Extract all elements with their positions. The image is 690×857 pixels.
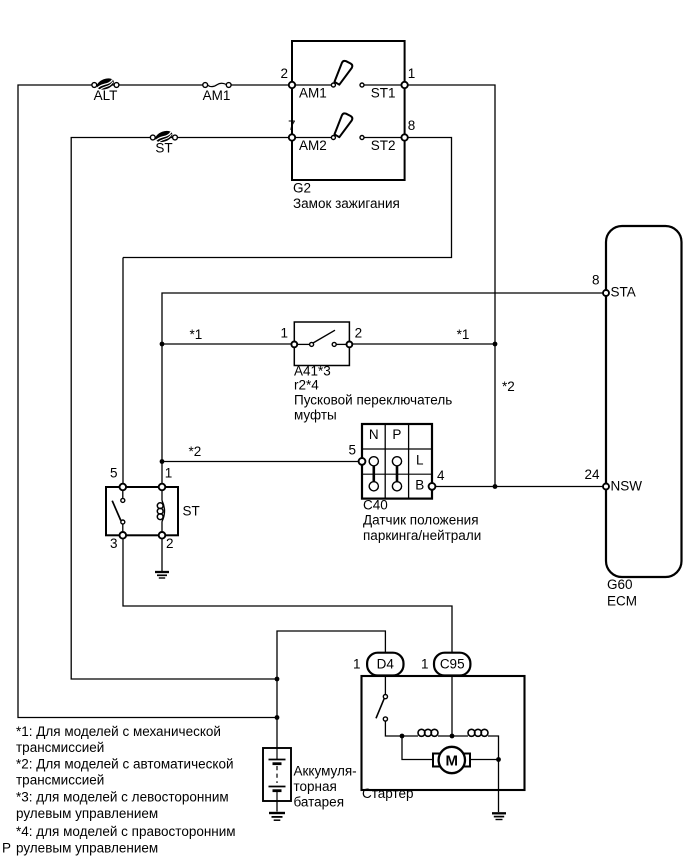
relay switch contact to pin3 stem	[122, 524, 124, 533]
C40 contact bar N column	[372, 463, 375, 485]
pin 2 circle	[289, 82, 295, 88]
svg-text:r2*4: r2*4	[294, 378, 319, 393]
C40 pin 5	[359, 458, 366, 465]
svg-text:P: P	[2, 841, 11, 856]
starter field coil 1	[418, 729, 438, 736]
ground relay	[155, 572, 169, 578]
svg-text:A41*3: A41*3	[294, 364, 331, 379]
ECM pin 24 NSW	[603, 484, 609, 490]
junction dot clutch wire right	[493, 342, 498, 347]
svg-text:1: 1	[408, 66, 416, 81]
wire ALT feed: battery left rail to ignition pin 2	[18, 85, 292, 718]
svg-text:*1: *1	[457, 327, 470, 342]
wire *2 to C40 pin5	[162, 461, 362, 463]
wire ST2 pin8 right, down, left to relay pin5 drop	[123, 138, 452, 258]
wire coil2 to right corner down to motor node	[488, 736, 499, 760]
svg-text:*2: *2	[189, 444, 202, 459]
key lever AM2	[335, 113, 353, 137]
C40 contact circle N row2	[369, 457, 378, 466]
wire relay pin3 down, right, down to C95	[123, 538, 452, 652]
wire motor right brush to node	[470, 759, 499, 761]
svg-text:*1: Для моделей с механической: *1: Для моделей с механической	[16, 724, 221, 739]
wire D4 bottom to starter switch	[384, 676, 386, 695]
svg-text:1: 1	[280, 326, 288, 341]
wire STA line with drop to relay pin1	[162, 293, 606, 487]
pin 1 circle	[401, 82, 407, 88]
svg-text:STA: STA	[611, 285, 636, 300]
connector C95 oval	[434, 653, 470, 676]
svg-text:*4: для моделей с правосторонн: *4: для моделей с правосторонним	[16, 824, 236, 839]
C40 contact circle N row3	[369, 482, 378, 491]
C40 contact circle P row3	[392, 482, 401, 491]
ignition switch G2 box	[292, 41, 405, 180]
pin 7 circle	[289, 134, 295, 140]
ECM pin 8 STA	[603, 290, 609, 296]
wire C95 drop into starter	[451, 676, 453, 737]
relay switch pin5 to contact stem	[122, 490, 124, 499]
contact circle ST1	[360, 83, 364, 87]
wire clutch switch right segment *1	[349, 343, 495, 345]
wire relay pin2 to ground	[161, 538, 163, 571]
svg-text:8: 8	[408, 118, 416, 133]
contact circle AM1	[331, 83, 335, 87]
wire battery rail: corner to D4 and down to battery	[277, 631, 385, 748]
wire relay pin5 vertical drop	[122, 258, 124, 488]
clutch start switch A41 box	[294, 322, 349, 366]
wire ST fuse rail to ignition pin 7	[71, 138, 292, 680]
relay pin 1	[159, 484, 166, 491]
wire ST1 pin1 right then down	[405, 85, 495, 487]
svg-text:B: B	[415, 478, 424, 493]
svg-text:Стартер: Стартер	[362, 786, 414, 801]
svg-text:C95: C95	[440, 657, 465, 672]
ground battery	[269, 813, 285, 820]
svg-text:8: 8	[592, 273, 600, 288]
relay switch lever	[112, 501, 121, 521]
contact circle ST2	[360, 136, 364, 140]
svg-text:3: 3	[110, 536, 118, 551]
svg-text:24: 24	[584, 467, 600, 482]
svg-text:7: 7	[288, 118, 296, 133]
svg-text:Замок зажигания: Замок зажигания	[293, 196, 400, 211]
svg-text:*2: Для моделей с автоматическ: *2: Для моделей с автоматической	[16, 757, 234, 772]
svg-text:*3: для моделей с левосторонни: *3: для моделей с левосторонним	[16, 790, 229, 805]
ignition AM1-ST1 contact row	[289, 61, 408, 88]
junction dot NSW wire	[493, 484, 498, 489]
wire switch node down to motor left brush	[402, 736, 433, 760]
svg-text:*1: *1	[190, 327, 203, 342]
fuse AM1	[203, 83, 231, 88]
starter motor brush right	[462, 754, 471, 767]
junction dot starter C95 node	[450, 734, 455, 739]
svg-text:Аккумуля-: Аккумуля-	[294, 764, 357, 779]
wire battery bottom to ground	[276, 801, 278, 812]
fusible link ALT	[92, 76, 119, 92]
svg-text:2: 2	[355, 326, 363, 341]
svg-text:1: 1	[353, 657, 361, 672]
fusible link ST	[150, 129, 177, 145]
svg-text:Пусковой переключатель: Пусковой переключатель	[294, 393, 452, 408]
svg-text:2: 2	[166, 536, 174, 551]
relay coil	[157, 490, 164, 535]
svg-text:1: 1	[421, 657, 429, 672]
wire coil row between coils	[438, 735, 468, 737]
clutch switch pin 1	[291, 342, 297, 348]
ground starter	[492, 813, 506, 819]
wire starter switch to coil row	[385, 721, 418, 736]
junction dot battery rail upper	[275, 677, 280, 682]
junction dot starter switch node	[400, 734, 405, 739]
svg-text:5: 5	[110, 466, 118, 481]
relay pin 5	[120, 484, 127, 491]
clutch switch lever	[313, 330, 335, 343]
starter relay ST box	[106, 487, 178, 535]
svg-text:ALT: ALT	[94, 88, 118, 103]
svg-text:N: N	[369, 427, 379, 442]
connector D4 oval	[367, 653, 403, 676]
C40 contact circle P row2	[392, 457, 401, 466]
svg-text:L: L	[416, 453, 424, 468]
C40 pin 4	[429, 483, 436, 490]
svg-text:*2: *2	[502, 379, 515, 394]
svg-text:ST: ST	[183, 504, 200, 519]
relay switch contact lower	[121, 520, 125, 524]
svg-text:трансмиссией: трансмиссией	[16, 740, 104, 755]
clutch switch contact b	[332, 342, 336, 346]
junction dot battery rail lower	[275, 715, 280, 720]
svg-text:батарея: батарея	[294, 795, 345, 810]
clutch switch contact a	[310, 342, 314, 346]
starter switch contact upper	[383, 695, 387, 699]
svg-text:5: 5	[348, 443, 356, 458]
svg-text:C40: C40	[363, 498, 388, 513]
clutch switch pin 2	[347, 342, 353, 348]
svg-text:Датчик положения: Датчик положения	[363, 513, 479, 528]
relay switch contact upper	[121, 498, 125, 502]
svg-text:торная: торная	[294, 779, 337, 794]
svg-text:D4: D4	[377, 657, 395, 672]
wire clutch switch left segment *1	[162, 343, 294, 345]
svg-text:трансмиссией: трансмиссией	[16, 773, 104, 788]
svg-text:G60: G60	[607, 577, 633, 592]
starter motor brush left	[433, 754, 442, 767]
svg-text:M: M	[446, 753, 459, 770]
starter motor M circle	[439, 747, 465, 773]
junction dot clutch wire left	[160, 342, 165, 347]
svg-text:4: 4	[437, 468, 445, 483]
starter box	[362, 676, 525, 790]
starter switch lever	[376, 699, 384, 719]
svg-text:NSW: NSW	[611, 479, 643, 494]
svg-text:2: 2	[280, 66, 288, 81]
svg-text:AM1: AM1	[203, 88, 231, 103]
svg-text:G2: G2	[293, 181, 311, 196]
battery cells	[269, 748, 286, 801]
ECM G60 box	[606, 226, 682, 577]
svg-text:ECM: ECM	[607, 594, 637, 609]
relay pin 3	[120, 532, 127, 539]
junction dot *2 wire	[160, 459, 165, 464]
svg-text:P: P	[392, 427, 401, 442]
pin 8 circle	[401, 134, 407, 140]
clutch switch wire between contact b and pin 2	[336, 343, 349, 345]
wire C40 pin4 to ECM NSW	[432, 486, 606, 488]
svg-text:AM2: AM2	[299, 138, 327, 153]
svg-text:ST2: ST2	[371, 138, 396, 153]
svg-text:1: 1	[165, 466, 173, 481]
starter field coil 2	[468, 729, 488, 736]
key lever AM1	[335, 61, 353, 85]
svg-text:рулевым управлением: рулевым управлением	[16, 806, 158, 821]
park/neutral switch C40 box	[362, 424, 432, 499]
svg-text:рулевым управлением: рулевым управлением	[16, 841, 158, 856]
battery box	[263, 748, 291, 801]
svg-text:паркинга/нейтрали: паркинга/нейтрали	[363, 528, 481, 543]
starter switch contact lower	[383, 717, 387, 721]
contact circle AM2	[331, 136, 335, 140]
svg-text:муфты: муфты	[294, 408, 337, 423]
svg-text:ST: ST	[155, 141, 172, 156]
relay pin 2	[159, 532, 166, 539]
clutch switch wire pin1 to contact a	[297, 343, 310, 345]
svg-text:ST1: ST1	[371, 86, 396, 101]
wire motor node down to starter ground	[498, 760, 500, 813]
svg-text:AM1: AM1	[299, 86, 327, 101]
C40 contact bar P column	[396, 463, 399, 485]
ignition AM2-ST2 contact row	[289, 113, 408, 140]
junction dot starter motor right node	[496, 757, 501, 762]
